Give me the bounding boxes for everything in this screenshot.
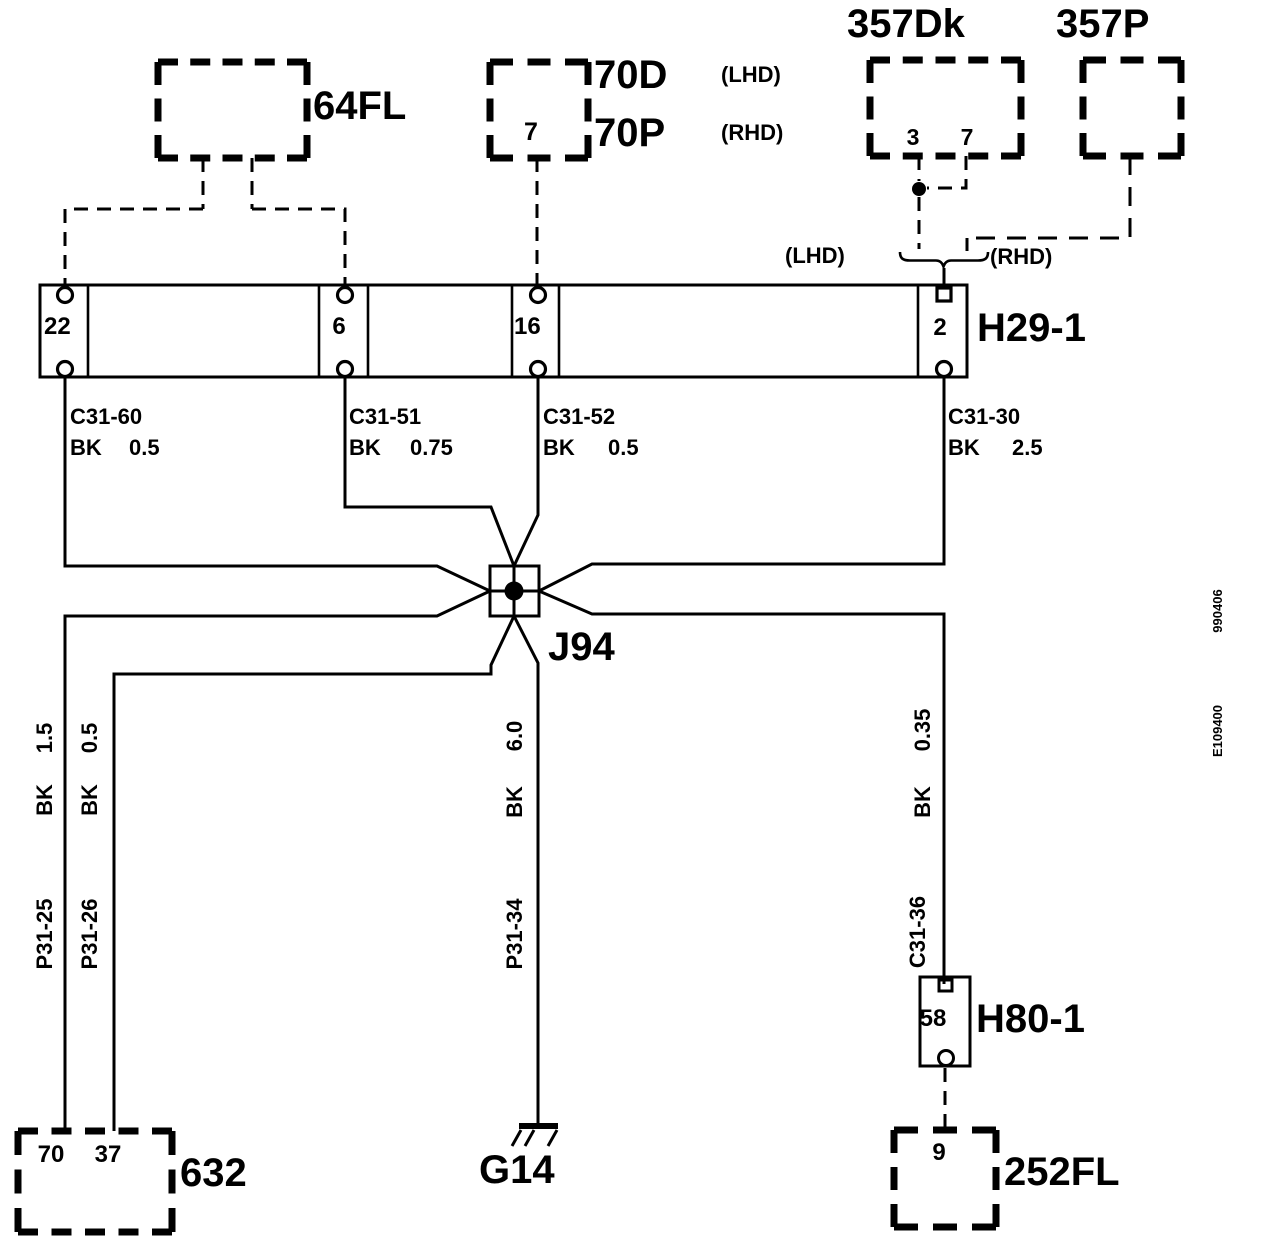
svg-text:990406: 990406: [1210, 589, 1225, 632]
svg-text:C31-30: C31-30: [948, 404, 1020, 429]
svg-text:C31-36: C31-36: [905, 896, 930, 968]
svg-text:BK: BK: [543, 435, 575, 460]
svg-text:E109400: E109400: [1210, 705, 1225, 757]
svg-text:2: 2: [933, 314, 946, 341]
svg-text:J94: J94: [548, 625, 615, 669]
svg-text:(RHD): (RHD): [721, 120, 783, 145]
svg-text:C31-51: C31-51: [349, 404, 421, 429]
svg-text:9: 9: [932, 1139, 945, 1166]
svg-text:0.5: 0.5: [77, 723, 102, 754]
svg-text:BK: BK: [502, 786, 527, 818]
svg-text:22: 22: [44, 313, 71, 340]
svg-text:0.5: 0.5: [129, 435, 160, 460]
svg-text:BK: BK: [32, 784, 57, 816]
svg-text:37: 37: [95, 1141, 122, 1168]
svg-text:16: 16: [514, 313, 541, 340]
svg-text:0.5: 0.5: [608, 435, 639, 460]
svg-text:BK: BK: [910, 786, 935, 818]
svg-text:357P: 357P: [1056, 2, 1149, 46]
svg-text:BK: BK: [349, 435, 381, 460]
svg-text:357Dk: 357Dk: [847, 2, 966, 46]
svg-text:C31-52: C31-52: [543, 404, 615, 429]
svg-text:P31-26: P31-26: [77, 899, 102, 970]
svg-text:P31-25: P31-25: [32, 899, 57, 970]
svg-text:0.75: 0.75: [410, 435, 453, 460]
svg-text:252FL: 252FL: [1004, 1150, 1120, 1194]
svg-text:632: 632: [180, 1151, 247, 1195]
svg-text:G14: G14: [479, 1148, 555, 1192]
svg-text:C31-60: C31-60: [70, 404, 142, 429]
svg-text:3: 3: [907, 124, 920, 150]
svg-text:BK: BK: [948, 435, 980, 460]
svg-text:64FL: 64FL: [313, 84, 406, 128]
svg-text:7: 7: [524, 118, 538, 146]
svg-text:BK: BK: [77, 784, 102, 816]
svg-text:(LHD): (LHD): [721, 62, 781, 87]
svg-text:(RHD): (RHD): [990, 244, 1052, 269]
svg-text:1.5: 1.5: [32, 723, 57, 754]
svg-text:H80-1: H80-1: [976, 997, 1085, 1041]
svg-text:7: 7: [961, 124, 974, 150]
svg-text:70P: 70P: [594, 111, 665, 155]
svg-text:6: 6: [332, 313, 345, 340]
svg-text:6.0: 6.0: [502, 721, 527, 752]
svg-text:(LHD): (LHD): [785, 243, 845, 268]
svg-text:70: 70: [38, 1141, 65, 1168]
svg-text:70D: 70D: [594, 53, 667, 97]
svg-text:58: 58: [920, 1005, 947, 1032]
svg-text:2.5: 2.5: [1012, 435, 1043, 460]
svg-text:H29-1: H29-1: [977, 306, 1086, 350]
svg-text:BK: BK: [70, 435, 102, 460]
svg-text:P31-34: P31-34: [502, 898, 527, 970]
svg-text:0.35: 0.35: [910, 709, 935, 752]
